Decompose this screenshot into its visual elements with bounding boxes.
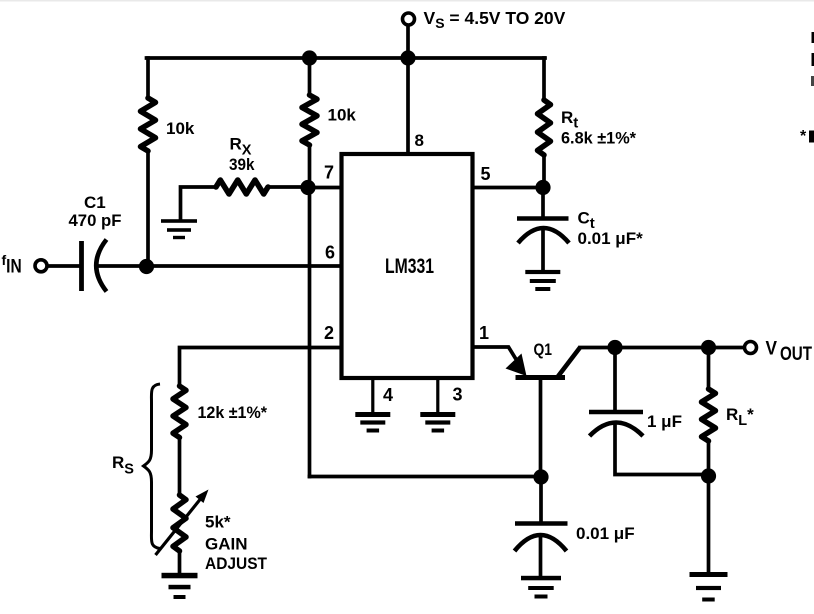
svg-text:12k ±1%*: 12k ±1%* — [198, 403, 268, 422]
terminal fin input — [35, 260, 47, 272]
wire Rt branch upper (rail to Rt) — [542, 58, 546, 100]
text fragment right edge 1 — [812, 32, 814, 43]
svg-text:39k: 39k — [229, 155, 255, 174]
wire pin 2 row — [180, 348, 342, 387]
wire pin 5 row — [473, 186, 544, 190]
label Vout — [766, 339, 813, 366]
ground under 0.01uF — [521, 576, 561, 599]
transistor Q1 base bar — [516, 375, 566, 380]
svg-text:1 μF: 1 μF — [647, 412, 682, 431]
wire pin5 node to Ct — [541, 188, 545, 218]
wire 0.01uF to ground — [539, 536, 543, 576]
svg-text:3: 3 — [453, 385, 463, 405]
potentiometer 5k gain adjust (Rs lower) — [173, 495, 186, 551]
svg-text:LM331: LM331 — [385, 255, 434, 278]
wire Q1 collector to Vout rail — [580, 346, 744, 350]
terminal Vs — [403, 13, 415, 25]
op-amp / VFC IC U1 LM331 box — [342, 154, 473, 378]
svg-text:Q1: Q1 — [534, 340, 553, 359]
wire pin 3 stub — [436, 378, 439, 412]
node pin7 junction — [300, 180, 315, 195]
wire Rs middle (12k to 5k pot) — [178, 438, 182, 496]
svg-text:GAIN: GAIN — [205, 535, 248, 554]
wire Rx left lead and drop to ground — [181, 187, 217, 219]
svg-text:470 pF: 470 pF — [69, 211, 122, 230]
resistor Rt 6.8k — [538, 100, 551, 155]
wire Vout rail to 1uF — [613, 348, 617, 411]
capacitor 1uF — [589, 412, 643, 436]
svg-text:2: 2 — [324, 323, 334, 343]
node Vout-1uF junction — [607, 340, 622, 355]
svg-text:1: 1 — [479, 323, 489, 343]
node fin junction — [139, 259, 154, 274]
node rail-10k junction — [302, 50, 317, 65]
svg-text:C1: C1 — [84, 193, 106, 212]
ground under Ct — [525, 270, 560, 291]
svg-text:10k: 10k — [328, 105, 357, 124]
svg-text:VS = 4.5V TO 20V: VS = 4.5V TO 20V — [424, 8, 566, 31]
svg-text:5k*: 5k* — [205, 513, 231, 532]
node rail-Vs junction — [400, 50, 415, 65]
wire Vs terminal to rail — [406, 26, 410, 59]
wire middle branch upper (rail to 10k) — [308, 58, 312, 95]
wire RL to bottom node — [707, 441, 711, 476]
text fragment right edge 3 — [811, 76, 814, 86]
wire fin row (terminal to C1) — [48, 264, 80, 268]
wire Rx right lead — [268, 185, 310, 189]
svg-text:6.8k ±1%*: 6.8k ±1%* — [561, 129, 636, 148]
text fragment right edge asterisk — [800, 128, 814, 145]
wire Ct to ground — [541, 229, 545, 270]
wire RL bottom node to ground — [707, 476, 711, 572]
svg-text:5: 5 — [481, 164, 491, 184]
svg-text:*: * — [800, 128, 807, 145]
wire Rt to pin5 node — [542, 155, 546, 188]
wire left branch lower (10k to fin node) — [146, 151, 150, 267]
ground under RL — [690, 572, 728, 602]
wire pin 7 node to box — [310, 186, 342, 190]
resistor 10k middle — [302, 95, 317, 145]
resistor 10k left — [141, 98, 156, 151]
resistor RL — [702, 389, 716, 441]
resistor 12k (Rs upper) — [173, 386, 186, 438]
wire left branch upper (rail to 10k) — [146, 58, 150, 98]
node RL-1uF bottom junction — [701, 468, 716, 483]
potentiometer wiper arrow — [156, 490, 209, 556]
ground under RX — [161, 219, 197, 239]
capacitor C1 470pF — [82, 240, 107, 292]
transistor Q1 emitter arrow — [506, 354, 527, 377]
svg-text:4: 4 — [383, 385, 393, 405]
svg-text:V: V — [766, 339, 778, 360]
node pin5-Rt junction — [535, 180, 550, 195]
wire middle branch (10k to pin7 node) — [308, 145, 312, 188]
wire fin row (C1 to pin 6 of box) — [97, 264, 342, 268]
text fragment right edge 2 — [812, 53, 814, 66]
wire 5k pot to ground — [178, 551, 182, 573]
svg-text:7: 7 — [324, 162, 334, 182]
wire long vertical pin7 node down — [308, 188, 312, 477]
ground pin 3 — [420, 412, 455, 433]
ground pin 4 — [355, 412, 390, 433]
svg-text:8: 8 — [415, 131, 424, 150]
svg-text:ADJUST: ADJUST — [205, 554, 268, 573]
ground under 5k pot — [162, 573, 198, 599]
resistor RX 39k — [216, 180, 268, 194]
node Vout-RL junction — [701, 340, 716, 355]
svg-text:0.01 μF: 0.01 μF — [576, 524, 635, 543]
capacitor Ct 0.01uF — [517, 219, 569, 244]
svg-text:6: 6 — [325, 243, 335, 263]
wire pin 4 stub — [371, 378, 374, 412]
svg-text:OUT: OUT — [780, 344, 812, 365]
wire Q1 base lead down — [539, 380, 543, 477]
terminal Vout — [745, 342, 757, 354]
wire Q1 base node to 0.01uF — [539, 477, 543, 523]
wire pin 1 to Q1 emitter — [473, 347, 519, 363]
svg-text:10k: 10k — [166, 119, 195, 138]
node Q1 base junction — [533, 469, 548, 484]
brace for Rs — [144, 384, 161, 549]
wire 1uF bottom to RL bottom node — [615, 425, 709, 475]
wire Vout rail to RL — [707, 348, 711, 390]
svg-text:0.01 μF*: 0.01 μF* — [578, 229, 644, 248]
capacitor 0.01uF bottom — [515, 524, 568, 552]
transistor Q1 collector lead — [558, 348, 581, 378]
wire top supply rail — [147, 56, 546, 60]
wire bottom horizontal to Q1 base node — [310, 475, 542, 479]
wire pin 8 from rail to box — [406, 58, 410, 154]
